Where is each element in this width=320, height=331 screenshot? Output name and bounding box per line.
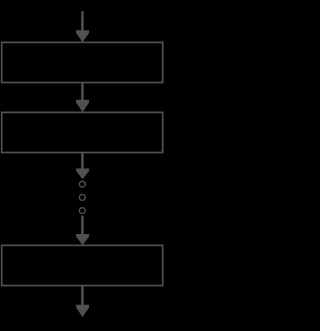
wire: bottom arrow shaft out of box 3 (81, 286, 84, 307)
wire: arrow shaft box 2 to dots (81, 153, 84, 171)
box 2 (2, 112, 163, 152)
box 3 (2, 245, 163, 285)
wire: arrow shaft dots to box 3 (81, 216, 84, 236)
dot circle 1 (79, 181, 85, 187)
wire: arrow shaft box 1 to box 2 (81, 83, 84, 103)
dot circle 3 (79, 208, 85, 214)
wire: top arrow shaft into box 1 (81, 11, 84, 32)
dot circle 2 (79, 194, 85, 200)
arrowhead into box 3 (76, 234, 89, 245)
flowchart diagram (0, 0, 166, 331)
arrowhead into box 1 (76, 30, 89, 42)
arrowhead into dots (76, 169, 89, 180)
arrowhead at bottom (76, 305, 89, 318)
box 1 (2, 42, 163, 82)
arrowhead into box 2 (76, 100, 89, 113)
